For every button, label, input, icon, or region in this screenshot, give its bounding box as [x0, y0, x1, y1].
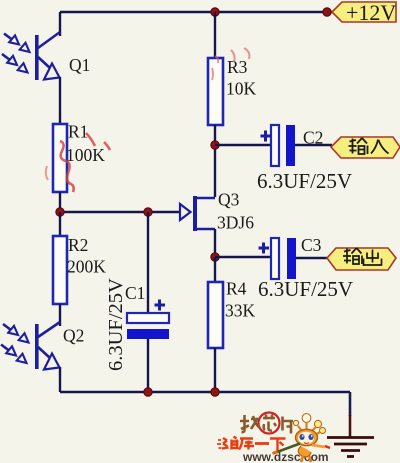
capacitor C2 — [261, 125, 296, 166]
wire Q3 source to node C — [214, 229, 216, 256]
transistor Q1 (phototransistor) — [35, 32, 60, 80]
label Q2 — [63, 326, 84, 346]
power label +12V — [332, 0, 396, 25]
junction +12V on rail — [323, 8, 331, 16]
node label input (shuru) — [331, 137, 400, 158]
wire node C to R4 — [214, 257, 216, 282]
wire to ground — [349, 392, 352, 437]
wire node B to C2 — [215, 144, 271, 146]
transistor Q3 (JFET 3DJ6) — [180, 196, 215, 231]
label Q1 — [69, 55, 90, 75]
svg-text:www.dzsc.com: www.dzsc.com — [242, 450, 329, 463]
wire left vertical to Q1 collector — [59, 12, 61, 36]
wire bottom rail — [60, 391, 350, 393]
svg-text:33K: 33K — [225, 301, 256, 321]
label R1 — [68, 122, 88, 142]
wire node A to R2 — [59, 212, 61, 236]
value label 33K — [225, 301, 256, 321]
node label output (shuchu) — [327, 248, 396, 270]
wire R1 to node A — [59, 192, 61, 212]
svg-text:3DJ6: 3DJ6 — [217, 213, 254, 233]
label C1 — [125, 283, 145, 303]
light arrow into Q2 (upper) — [3, 324, 29, 343]
value label 6.3UF/25V (C1, rotated) — [105, 278, 127, 371]
wire Q1 emitter to R1 — [59, 77, 61, 124]
label R3 — [227, 57, 248, 77]
junction C1 bottom — [144, 388, 152, 396]
resistor R3 — [208, 58, 223, 125]
wire C1 branch top — [147, 212, 149, 313]
watermark red scribble over R1 — [46, 133, 110, 192]
watermark url — [242, 450, 329, 463]
capacitor C1 — [127, 300, 169, 340]
svg-text:R3: R3 — [227, 57, 248, 77]
wire C1 to bottom rail — [147, 339, 149, 392]
value label 10K — [226, 79, 257, 99]
node C junction — [211, 253, 219, 261]
label C2 — [303, 128, 323, 148]
svg-text:Q3: Q3 — [218, 190, 240, 210]
light arrow into Q2 (lower) — [1, 345, 27, 364]
wire R4 to bottom rail — [214, 348, 216, 392]
value label 100K — [66, 145, 105, 165]
resistor R4 — [208, 282, 223, 348]
node C1 top junction — [144, 208, 152, 216]
wire C2 to input tag — [295, 144, 332, 146]
value label 6.3UF/25V (C2) — [257, 169, 352, 193]
svg-text:R4: R4 — [226, 279, 247, 299]
watermark text weikuyixia — [217, 437, 286, 451]
wire R3 to node B — [214, 125, 216, 197]
wire Q2 emitter to bottom rail — [59, 367, 61, 392]
label R2 — [68, 235, 88, 255]
wire node C to C3 — [215, 256, 271, 258]
value label 3DJ6 — [217, 213, 254, 233]
svg-text:6.3UF/25V: 6.3UF/25V — [257, 169, 352, 193]
capacitor C3 — [259, 238, 297, 279]
node B junction — [211, 141, 219, 149]
svg-text:R1: R1 — [68, 122, 88, 142]
svg-text:100K: 100K — [66, 145, 105, 165]
wire C3 to output tag — [296, 257, 327, 259]
wire top rail to R3 — [214, 12, 216, 58]
svg-text:C3: C3 — [301, 235, 322, 255]
resistor R2 — [53, 236, 67, 304]
label R4 — [226, 279, 247, 299]
label Q3 — [218, 190, 240, 210]
svg-text:6.3UF/25V: 6.3UF/25V — [105, 278, 127, 371]
svg-text:+12V: +12V — [346, 0, 396, 25]
wire R2 to Q2 — [59, 304, 61, 326]
junction R3 top on rail — [211, 8, 219, 16]
ground — [327, 438, 374, 457]
value label 200K — [67, 257, 106, 277]
svg-text:6.3UF/25V: 6.3UF/25V — [258, 277, 353, 301]
transistor Q2 (phototransistor) — [35, 322, 60, 370]
svg-text:200K: 200K — [67, 257, 106, 277]
svg-text:C1: C1 — [125, 283, 145, 303]
light arrow into Q1 (upper) — [4, 34, 30, 53]
svg-text:Q2: Q2 — [63, 326, 84, 346]
label C3 — [301, 235, 322, 255]
value label 6.3UF/25V (C3) — [258, 277, 353, 301]
watermark red scribble near R3 — [212, 48, 249, 80]
svg-text:R2: R2 — [68, 235, 88, 255]
light arrow into Q1 (lower) — [2, 54, 28, 73]
resistor R1 — [53, 124, 67, 192]
node A junction — [56, 208, 64, 216]
junction R4 bottom — [211, 388, 219, 396]
watermark logo zhaoxinpian — [240, 413, 293, 434]
watermark mascot — [273, 414, 331, 462]
svg-text:Q1: Q1 — [69, 55, 90, 75]
wire node A to Q3 gate — [60, 211, 180, 213]
svg-text:10K: 10K — [226, 79, 257, 99]
wire top rail — [60, 11, 332, 13]
